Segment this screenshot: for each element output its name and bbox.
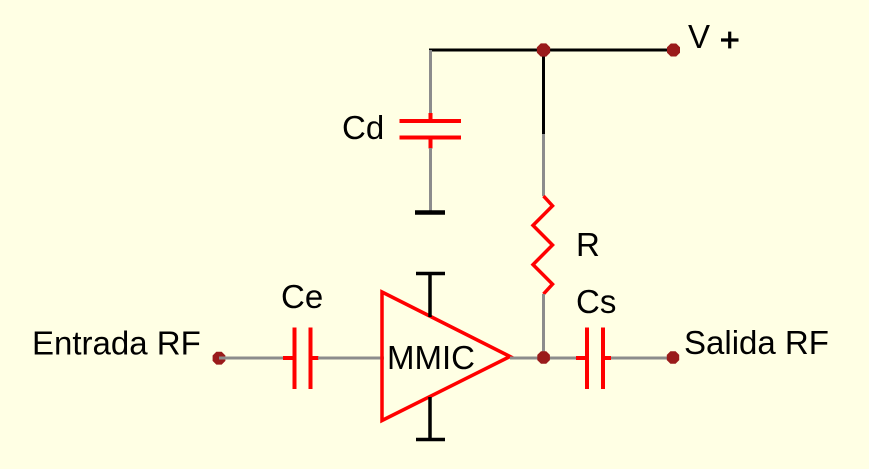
ground top lead of MMIC (416, 274, 445, 318)
wire V+ rail (top horizontal black) (429, 49, 668, 52)
capacitor Ce (283, 328, 319, 390)
terminal V+ (667, 44, 680, 57)
resistor R (533, 196, 553, 294)
capacitor Cs (576, 328, 611, 390)
svg-text:R: R (576, 226, 600, 263)
svg-text:MMIC: MMIC (387, 339, 475, 376)
wire (black vertical from V+ rail down toward R) (542, 50, 545, 134)
svg-text:Ce: Ce (281, 278, 323, 315)
wire (Cs to output terminal) (611, 357, 668, 360)
wire (gray from resistor bottom to output node) (542, 294, 545, 358)
ground (below Cd) (415, 210, 445, 215)
svg-text:Cs: Cs (576, 283, 616, 320)
svg-text:Entrada RF: Entrada RF (32, 325, 201, 362)
node V+ junction (537, 43, 550, 56)
wire (gray vertical from V+ rail down to Cd) (429, 50, 432, 114)
terminal output (667, 351, 679, 363)
svg-text:Salida RF: Salida RF (684, 324, 829, 361)
capacitor Cd (400, 113, 462, 149)
ground bottom lead of MMIC (416, 397, 445, 440)
wire (Ce to MMIC input) (318, 357, 384, 360)
amplifier MMIC (triangle) (382, 292, 510, 421)
wire (input lead to Ce) (219, 357, 284, 360)
wire (gray lead from black wire to resistor top) (542, 134, 545, 196)
wire (MMIC output to Cs) (510, 357, 577, 360)
terminal input (213, 352, 226, 365)
svg-text:V: V (688, 18, 710, 55)
node output junction (537, 351, 550, 364)
wire (gray from Cd down to ground) (429, 148, 432, 211)
svg-text:Cd: Cd (342, 109, 384, 146)
